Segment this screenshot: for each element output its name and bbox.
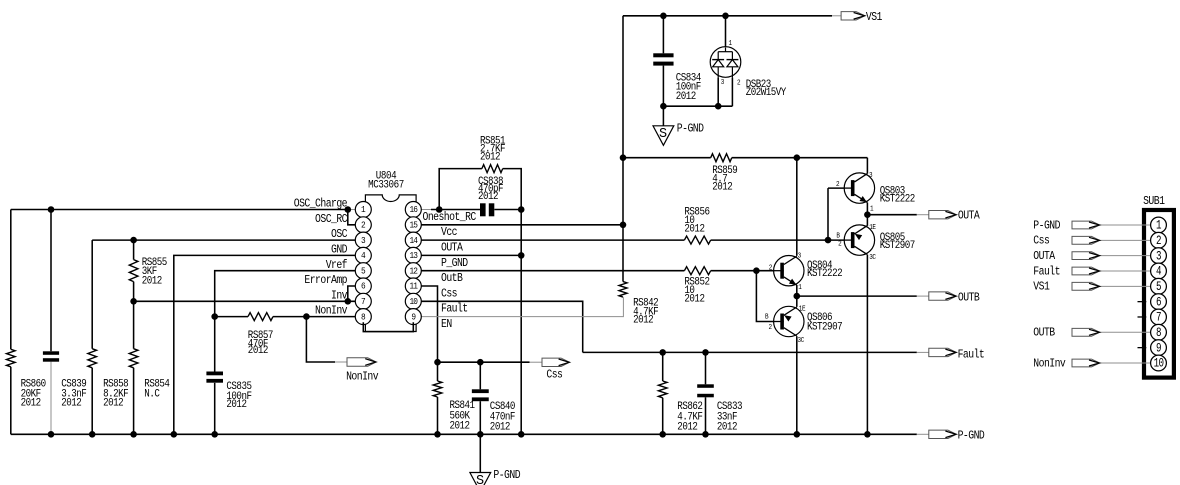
junction RS855 bottom on Inv row bbox=[130, 298, 137, 305]
svg-text:5: 5 bbox=[361, 266, 366, 277]
svg-text:4: 4 bbox=[1156, 265, 1162, 279]
wire net OSC_Charge (pin1 row, left columns) bbox=[11, 209, 348, 211]
svg-text:ErrorAmp: ErrorAmp bbox=[304, 274, 347, 287]
svg-text:OUTB: OUTB bbox=[958, 292, 980, 305]
svg-text:7: 7 bbox=[361, 296, 366, 307]
junction Fault / CS833 bbox=[702, 349, 709, 356]
SUB1 pin 10 bbox=[1151, 355, 1167, 371]
svg-text:2: 2 bbox=[1156, 235, 1161, 249]
pin 7 bbox=[355, 293, 371, 309]
svg-text:Vref: Vref bbox=[326, 259, 347, 272]
resistor RS858 bbox=[88, 349, 97, 368]
svg-text:2: 2 bbox=[769, 324, 773, 332]
wire RS859 branch row bbox=[623, 157, 711, 159]
svg-text:4: 4 bbox=[361, 251, 366, 262]
resistor RS841 bbox=[433, 381, 442, 397]
connector SUB1 bbox=[1143, 195, 1164, 208]
svg-text:3: 3 bbox=[1156, 250, 1162, 264]
svg-text:2012: 2012 bbox=[21, 398, 42, 410]
svg-text:8: 8 bbox=[1156, 327, 1162, 341]
svg-text:KST2222: KST2222 bbox=[880, 194, 916, 206]
svg-text:8: 8 bbox=[361, 312, 366, 323]
svg-text:1: 1 bbox=[1156, 219, 1162, 233]
wire net GND (pin4 row) bbox=[174, 255, 355, 434]
capacitor CS838 (series) bbox=[480, 203, 486, 216]
svg-text:1E: 1E bbox=[869, 224, 876, 232]
svg-text:13: 13 bbox=[410, 251, 418, 262]
svg-text:GND: GND bbox=[331, 244, 347, 257]
port Fault bbox=[929, 348, 957, 356]
svg-text:Oneshot_RC: Oneshot_RC bbox=[423, 211, 476, 224]
port OUTA bbox=[929, 211, 957, 219]
svg-text:KST2907: KST2907 bbox=[880, 241, 916, 253]
svg-text:2012: 2012 bbox=[61, 398, 82, 410]
svg-text:N.C: N.C bbox=[144, 389, 160, 401]
port OUTB bbox=[929, 292, 957, 300]
resistor RS860 bbox=[7, 349, 16, 367]
SUB1 pin 9 bbox=[1151, 340, 1167, 356]
svg-text:2012: 2012 bbox=[676, 92, 697, 104]
pin 3 bbox=[355, 232, 371, 248]
resistor RS852 bbox=[684, 267, 710, 275]
svg-text:2012: 2012 bbox=[684, 294, 705, 306]
transistor QS805 KST2907 (PNP) bbox=[844, 225, 874, 255]
junction zener left leg bbox=[715, 103, 722, 110]
SUB1 wire/flag OUTB bbox=[1100, 331, 1151, 333]
wire QS804 collector riser bbox=[796, 158, 798, 256]
svg-text:2012: 2012 bbox=[478, 191, 499, 203]
wire RS842 top lead from Vcc column bbox=[622, 225, 624, 282]
pin 5 bbox=[355, 263, 371, 279]
svg-text:1: 1 bbox=[361, 205, 366, 216]
svg-text:6: 6 bbox=[1156, 296, 1162, 310]
junction OUTA emitters bbox=[864, 211, 871, 218]
svg-text:6: 6 bbox=[361, 281, 366, 292]
svg-text:2012: 2012 bbox=[633, 315, 654, 327]
wire pin8-pin9 EN strap under IC bbox=[363, 322, 413, 331]
svg-text:2: 2 bbox=[361, 220, 366, 231]
SUB1 wire/flag Css bbox=[1100, 239, 1151, 241]
wire net Oneshot_RC (pin16 row with RS851/CS838 loop) bbox=[421, 209, 431, 211]
junction OSC_Charge at CS839 bbox=[48, 206, 55, 213]
svg-text:10: 10 bbox=[1154, 357, 1165, 371]
wire net NonInv (pin8 row) bbox=[215, 316, 248, 318]
svg-text:Css: Css bbox=[546, 369, 562, 382]
svg-text:VS1: VS1 bbox=[866, 11, 882, 24]
wire pin2 OSC_RC riser bbox=[348, 210, 355, 225]
svg-text:2012: 2012 bbox=[142, 276, 163, 288]
SUB1 pin 8 bbox=[1151, 324, 1167, 340]
transistor QS806 KST2907 (PNP) bbox=[774, 306, 804, 336]
SUB1 pin 9 stub bbox=[1138, 347, 1147, 349]
ground P-GND (upper) bbox=[653, 126, 674, 146]
junction top rail DSB23 bbox=[722, 13, 729, 20]
svg-text:NonInv: NonInv bbox=[1033, 358, 1066, 371]
svg-text:OUTB: OUTB bbox=[1033, 327, 1055, 340]
wire net OSC (pin3 row) bbox=[92, 239, 355, 241]
SUB1 wire/flag P-GND bbox=[1100, 224, 1151, 226]
SUB1 pin 1 bbox=[1151, 217, 1167, 233]
svg-text:2: 2 bbox=[769, 264, 773, 272]
wire net Inv (pin7 row) bbox=[134, 300, 356, 302]
junction Vcc / VS1 column bbox=[620, 222, 627, 229]
svg-text:3: 3 bbox=[798, 252, 802, 260]
svg-text:3: 3 bbox=[361, 235, 366, 246]
junction pin1/pin2 bbox=[345, 206, 352, 213]
wire CS834 column bbox=[662, 16, 664, 54]
junction P_GND pin13 bbox=[518, 252, 525, 259]
junction top rail CS834 bbox=[660, 13, 667, 20]
svg-text:OUTA: OUTA bbox=[958, 210, 980, 223]
wire QS806 collector to bus bbox=[796, 336, 798, 434]
wire net OUTA drive (pin14 row through RS856 to bases) bbox=[421, 239, 684, 241]
port VS1 bbox=[841, 12, 865, 20]
svg-text:2012: 2012 bbox=[490, 422, 511, 434]
junction Fault / RS862 bbox=[659, 349, 666, 356]
svg-text:S: S bbox=[476, 474, 484, 485]
SUB1 wire/flag Fault bbox=[1100, 270, 1151, 272]
pin 10 bbox=[405, 293, 421, 309]
wire zener bottom tie bbox=[663, 105, 732, 107]
junction NonInv tap bbox=[303, 313, 310, 320]
wire QS806 base riser bbox=[756, 271, 773, 322]
svg-text:EN: EN bbox=[441, 318, 452, 331]
wire net Css (pin11 drop and row) bbox=[421, 286, 437, 362]
svg-text:3: 3 bbox=[869, 171, 873, 179]
pin 8 bbox=[355, 309, 371, 325]
wire P-GND lead (top) bbox=[662, 106, 664, 126]
svg-text:Z02W15VY: Z02W15VY bbox=[746, 87, 787, 99]
wire ground bus bbox=[11, 433, 917, 435]
pin 9 bbox=[405, 309, 421, 325]
svg-text:10: 10 bbox=[410, 296, 418, 307]
SUB1 pin 6 bbox=[1151, 294, 1167, 310]
resistor RS859 bbox=[711, 154, 732, 162]
svg-text:2012: 2012 bbox=[677, 422, 698, 434]
IC left pin name labels bbox=[294, 198, 347, 211]
svg-text:12: 12 bbox=[410, 266, 418, 277]
svg-text:Fault: Fault bbox=[1033, 266, 1060, 279]
wire NonInv flag drop bbox=[306, 317, 335, 362]
svg-text:OSC_RC: OSC_RC bbox=[315, 213, 347, 226]
pin 15 bbox=[405, 217, 421, 233]
svg-text:2: 2 bbox=[737, 79, 741, 87]
svg-text:1: 1 bbox=[870, 205, 874, 213]
svg-text:1: 1 bbox=[729, 40, 733, 48]
wire pin6 ErrorAmp riser to Inv bbox=[348, 286, 355, 301]
svg-text:3: 3 bbox=[721, 79, 725, 87]
svg-text:B: B bbox=[836, 232, 840, 240]
junction Css / RS841 bbox=[434, 359, 441, 366]
svg-text:15: 15 bbox=[410, 220, 418, 231]
svg-text:16: 16 bbox=[410, 205, 418, 216]
pin 16 bbox=[405, 202, 421, 218]
pin 4 bbox=[355, 247, 371, 263]
svg-text:7: 7 bbox=[1156, 311, 1161, 325]
SUB1 pin 6 stub bbox=[1138, 301, 1147, 303]
wire QS803 collector/emitter column bbox=[866, 203, 868, 215]
svg-text:2: 2 bbox=[836, 180, 840, 188]
IC U804 MC33067 body bbox=[365, 195, 416, 332]
wire DSB23 top lead bbox=[725, 16, 727, 48]
wire QS805 collector to bus bbox=[866, 255, 868, 434]
capacitor CS833 bbox=[697, 384, 714, 388]
svg-text:OUTA: OUTA bbox=[441, 242, 463, 255]
junction OUTB emitters bbox=[794, 293, 801, 300]
SUB1 pin 7 bbox=[1151, 309, 1167, 325]
svg-text:2: 2 bbox=[838, 240, 842, 248]
svg-text:2012: 2012 bbox=[712, 182, 733, 194]
SUB1 pin 5 bbox=[1151, 278, 1167, 294]
svg-text:MC33067: MC33067 bbox=[368, 180, 404, 192]
svg-text:9: 9 bbox=[1156, 342, 1161, 356]
svg-text:P-GND: P-GND bbox=[677, 123, 704, 136]
wire RS855/RS854 column bbox=[133, 240, 135, 260]
svg-text:Vcc: Vcc bbox=[441, 227, 457, 240]
wire CS840 column bbox=[479, 362, 481, 389]
wire VS1 column and top rail bbox=[622, 16, 624, 225]
transistor QS803 KST2222 (NPN) bbox=[844, 173, 874, 203]
resistor RS842 bbox=[619, 282, 627, 298]
port Css bbox=[542, 358, 570, 366]
svg-text:OUTA: OUTA bbox=[1033, 250, 1055, 263]
pin 2 bbox=[355, 217, 371, 233]
wire CS833 column bbox=[705, 352, 707, 384]
pin 14 bbox=[405, 232, 421, 248]
zener DSB23 Z02W15VY bbox=[710, 47, 741, 78]
wire net Fault (pin10 drop and row) bbox=[421, 301, 582, 352]
pin 12 bbox=[405, 263, 421, 279]
svg-text:P-GND: P-GND bbox=[958, 430, 985, 443]
svg-text:NonInv: NonInv bbox=[346, 371, 379, 384]
wire net EN (pin9 row to RS842) bbox=[421, 297, 623, 317]
junction RS859 / QS804 collector riser bbox=[794, 154, 801, 161]
svg-text:B: B bbox=[765, 313, 769, 321]
svg-text:Css: Css bbox=[1033, 235, 1049, 248]
wire RS862 column bbox=[662, 352, 664, 381]
junction Oneshot_RC right bbox=[518, 206, 525, 213]
svg-text:OSC_Charge: OSC_Charge bbox=[294, 198, 347, 211]
wire RS841 column bbox=[437, 362, 439, 381]
pin 13 bbox=[405, 247, 421, 263]
svg-text:11: 11 bbox=[410, 281, 418, 292]
svg-text:2012: 2012 bbox=[480, 152, 501, 164]
svg-text:VS1: VS1 bbox=[1033, 281, 1049, 294]
svg-text:1E: 1E bbox=[799, 305, 806, 313]
svg-text:S: S bbox=[659, 127, 667, 142]
junction OSC / RS855 top bbox=[130, 237, 137, 244]
wire pin13 P_GND row bbox=[421, 254, 521, 256]
SUB1 pin 4 bbox=[1151, 263, 1167, 279]
svg-text:5: 5 bbox=[1156, 281, 1162, 295]
pin 1 bbox=[355, 202, 371, 218]
svg-text:OutB: OutB bbox=[441, 272, 463, 285]
capacitor CS834 bbox=[653, 53, 673, 57]
svg-text:KST2222: KST2222 bbox=[807, 268, 843, 280]
resistor RS856 bbox=[684, 236, 710, 244]
svg-text:3C: 3C bbox=[798, 337, 805, 345]
resistor RS854 (N.C) bbox=[129, 349, 138, 368]
resistor RS862 bbox=[658, 381, 667, 398]
capacitor CS840 bbox=[472, 389, 489, 393]
svg-text:P_GND: P_GND bbox=[441, 257, 468, 270]
wire QS803 base riser bbox=[827, 188, 829, 240]
wire net Vref (pin5 row, CS835 column) bbox=[215, 271, 356, 372]
wire OUTA output row bbox=[867, 214, 916, 216]
svg-text:Inv: Inv bbox=[331, 290, 348, 303]
svg-text:Css: Css bbox=[441, 288, 457, 301]
junction QS804/QS806 base tie bbox=[753, 267, 760, 274]
capacitor CS839 bbox=[43, 351, 59, 355]
junction pin6/pin7 bbox=[345, 298, 352, 305]
SUB1 pin 7 stub bbox=[1138, 316, 1147, 318]
svg-text:OSC: OSC bbox=[331, 229, 347, 242]
svg-text:P-GND: P-GND bbox=[493, 469, 520, 482]
junction CS834 / ground lead bbox=[660, 103, 667, 110]
svg-text:2012: 2012 bbox=[450, 421, 471, 433]
resistor RS855 bbox=[129, 260, 138, 282]
svg-text:KST2907: KST2907 bbox=[807, 322, 843, 334]
port NonInv bbox=[347, 358, 376, 366]
svg-text:2012: 2012 bbox=[684, 224, 705, 236]
svg-text:NonInv: NonInv bbox=[315, 305, 348, 318]
SUB1 wire/flag VS1 bbox=[1100, 285, 1151, 287]
transistor QS804 KST2222 (NPN) bbox=[774, 256, 804, 286]
wire QS804 emitter / QS806 emitter bbox=[796, 285, 798, 296]
SUB1 pin 2 bbox=[1151, 232, 1167, 248]
SUB1 wire/flag NonInv bbox=[1100, 362, 1151, 364]
capacitor CS835 bbox=[206, 372, 223, 376]
wire net P_GND column x=521 to bus bbox=[520, 210, 522, 435]
junctions on ground bus bbox=[48, 431, 55, 438]
svg-text:2012: 2012 bbox=[717, 422, 738, 434]
svg-text:Fault: Fault bbox=[441, 303, 468, 316]
ground P-GND (bottom) bbox=[470, 473, 491, 485]
wire net Vcc (pin15 row) bbox=[421, 224, 623, 226]
junction QS803/QS805 base tie bbox=[825, 237, 832, 244]
svg-text:P-GND: P-GND bbox=[1033, 220, 1060, 233]
SUB1 wire/flag OUTA bbox=[1100, 255, 1151, 257]
svg-text:1: 1 bbox=[798, 284, 802, 292]
svg-text:14: 14 bbox=[410, 235, 418, 246]
svg-text:2012: 2012 bbox=[226, 399, 247, 411]
junction Oneshot_RC left bbox=[436, 206, 443, 213]
junction Css / CS840 bbox=[477, 359, 484, 366]
svg-text:SUB1: SUB1 bbox=[1143, 195, 1164, 208]
SUB1 pin 3 bbox=[1151, 248, 1167, 264]
pin 6 bbox=[355, 278, 371, 294]
IC right pin name labels bbox=[423, 211, 476, 224]
svg-text:2012: 2012 bbox=[248, 345, 269, 357]
port P-GND bbox=[929, 430, 957, 438]
svg-text:2012: 2012 bbox=[103, 398, 124, 410]
pin 11 bbox=[405, 278, 421, 294]
wire net OutB drive (pin12 row through RS852 to bases) bbox=[421, 270, 684, 272]
resistor RS851 bbox=[482, 165, 503, 173]
svg-text:3C: 3C bbox=[869, 254, 876, 262]
junction Vref column / NonInv row bbox=[211, 313, 218, 320]
wire OUTB output row bbox=[797, 295, 917, 297]
resistor RS857 bbox=[248, 313, 273, 321]
svg-text:Fault: Fault bbox=[958, 349, 985, 362]
junction RS859 left bbox=[620, 154, 627, 161]
